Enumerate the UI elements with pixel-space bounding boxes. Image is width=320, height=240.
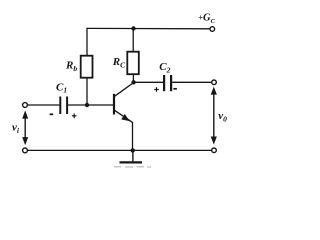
svg-text:C2: C2 — [159, 61, 170, 74]
svg-text:Rb: Rb — [65, 60, 77, 73]
svg-text:v0: v0 — [218, 110, 227, 123]
svg-text:RC: RC — [112, 56, 126, 69]
wire: C1 to transistor base — [68, 104, 113, 106]
wire: input terminal to C1 — [27, 104, 59, 106]
capacitor C1 — [60, 97, 67, 115]
wire: bottom rail — [27, 149, 211, 151]
svg-text:+GC: +GC — [198, 13, 215, 25]
svg-text:C1: C1 — [56, 81, 67, 94]
svg-text:vi: vi — [12, 122, 20, 135]
wire: Rb bottom to base node — [86, 78, 88, 105]
label C2 minus — [173, 88, 177, 90]
node: collector junction — [131, 80, 135, 84]
resistor Rb — [81, 56, 93, 78]
ground — [120, 150, 143, 162]
resistor Rc — [127, 52, 139, 74]
output terminal (vo top) — [212, 80, 217, 85]
input terminal (vi top) — [23, 103, 28, 108]
wire: rail down to Rc — [132, 29, 134, 52]
node: emitter-ground junction — [131, 148, 135, 152]
wire: rail down to Rb — [86, 28, 88, 56]
vo voltage arrow — [211, 87, 217, 145]
node: base junction — [85, 103, 89, 107]
power +GC terminal — [210, 27, 215, 32]
ground echo marks (faint scan artifact) — [114, 166, 151, 168]
wire: Rc bottom to collector node — [132, 74, 134, 82]
label C1 plus — [72, 114, 77, 119]
vi voltage arrow — [22, 110, 28, 145]
wire: emitter down to bottom rail — [132, 122, 134, 151]
wire: C2 to output terminal — [172, 81, 212, 83]
label C2 plus — [154, 87, 159, 92]
wire: top supply rail — [87, 27, 210, 29]
transistor Q1 — [114, 83, 134, 123]
node: Rc top junction — [131, 26, 135, 30]
capacitor C2 — [164, 75, 171, 91]
bottom-right terminal (vo bottom) — [212, 148, 217, 153]
label C1 minus — [50, 113, 54, 115]
bottom-left terminal (vi bottom) — [23, 148, 28, 153]
wire: collector node to C2 — [134, 81, 164, 83]
